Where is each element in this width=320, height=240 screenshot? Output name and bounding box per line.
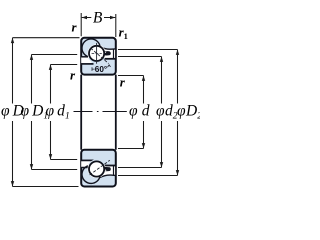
- 60deg leader: [92, 67, 95, 71]
- svg-text:B: B: [93, 9, 103, 26]
- phid arrows: [142, 76, 145, 81]
- phid1 leaders: [51, 65, 78, 160]
- svg-text:60°: 60°: [95, 65, 107, 74]
- phiD leaders: [13, 38, 80, 187]
- ball horizontal centerline: [92, 52, 102, 54]
- bottom bearing section (mirrored): [81, 150, 116, 187]
- B right arrow: [110, 16, 115, 19]
- phiD2 arrows: [176, 50, 179, 55]
- right face line: [115, 75, 117, 150]
- bottom contact dashed line: [90, 160, 110, 175]
- phiD arrows: [11, 38, 14, 43]
- dim phid vertical line: [143, 76, 145, 149]
- B dimension line: [82, 17, 116, 19]
- phid1 vertical line: [50, 65, 52, 160]
- svg-text:φ: φ: [129, 103, 138, 120]
- svg-text:φ: φ: [156, 103, 165, 120]
- center axis dash-dot: [74, 111, 127, 113]
- contact line caret: [108, 65, 111, 67]
- left face line: [80, 75, 82, 150]
- phid2 arrows: [160, 57, 163, 62]
- phid2 vertical line: [161, 57, 163, 168]
- ball vertical centerline: [96, 43, 98, 64]
- contact angle dashed line: [91, 48, 109, 63]
- phiD1 vertical line: [31, 55, 33, 170]
- B extension lines: [81, 13, 116, 37]
- svg-text:d: d: [142, 103, 150, 120]
- phiD2 vertical line: [177, 50, 179, 176]
- svg-text:φ: φ: [177, 103, 186, 120]
- phid2 leaders: [118, 57, 162, 168]
- B left arrow: [82, 16, 87, 19]
- phiD1 leaders: [32, 55, 78, 170]
- phiD1 arrows: [30, 55, 33, 60]
- phid1 arrows: [49, 65, 52, 70]
- top bearing section: [81, 38, 116, 75]
- phid leaders: [118, 76, 144, 149]
- phiD2 leaders: [118, 50, 178, 176]
- dim phiD vertical line: [12, 38, 14, 187]
